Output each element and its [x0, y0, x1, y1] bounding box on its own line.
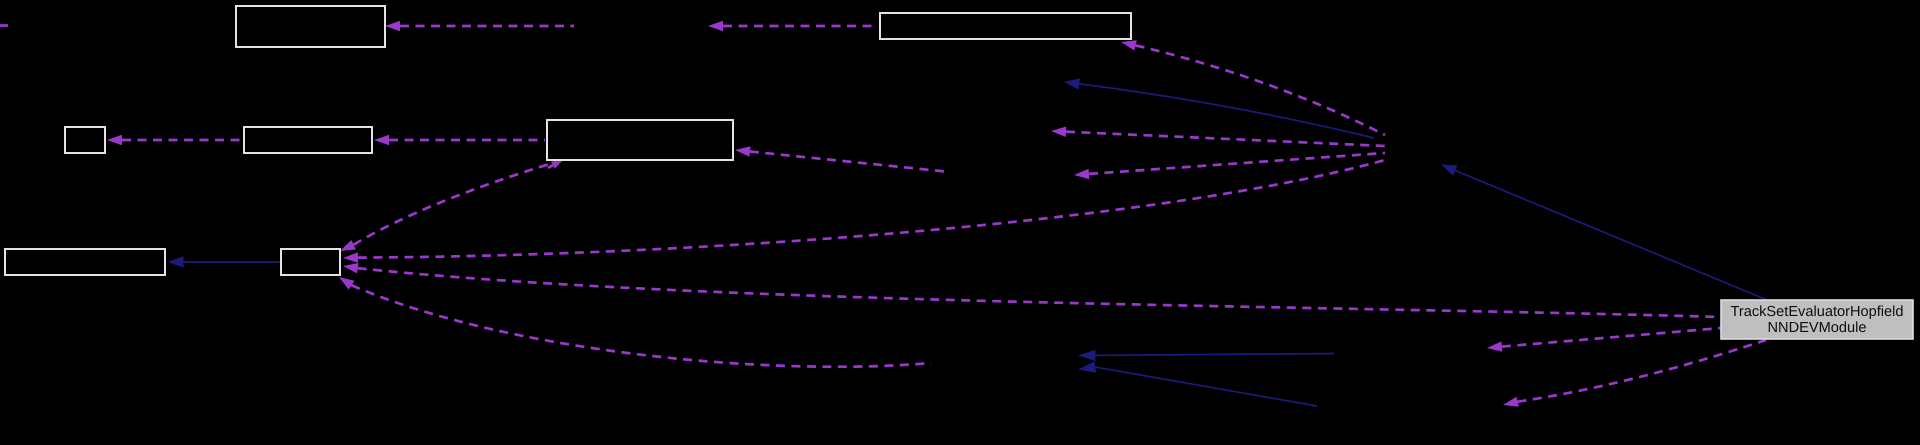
- svg-text:NNDEVModule: NNDEVModule: [1768, 320, 1867, 336]
- svg-text:TrackSetEvaluatorHopfield: TrackSetEvaluatorHopfield: [1730, 304, 1903, 320]
